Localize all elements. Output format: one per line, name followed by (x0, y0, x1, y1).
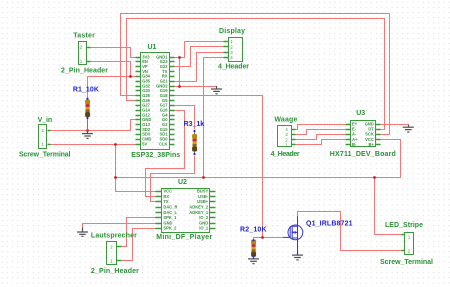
wire GND1 node down to GND2 (179, 58, 181, 87)
wire V_in pin1 to U1 5V (51, 144, 136, 146)
node GND2 (178, 85, 181, 88)
svg-text:4_Header: 4_Header (218, 64, 249, 71)
wire Waage pin2 to U3 A- (296, 135, 346, 140)
svg-text:IO_1: IO_1 (199, 226, 209, 231)
wire Q1 drain to LED pin2 (298, 212, 402, 251)
svg-text:Screw_Terminal: Screw_Terminal (19, 152, 71, 159)
header Lautsprecher 2_Pin_Header (107, 242, 122, 265)
resistor R3 1k (192, 130, 197, 155)
svg-text:USB+: USB+ (197, 199, 209, 204)
wire U1 GND1 to Display pin1 (175, 42, 224, 58)
svg-text:R1_10K: R1_10K (73, 87, 99, 94)
IC U2 Mini_DF_Player (156, 189, 216, 233)
wire U1 G21 to Display pin3 (175, 53, 224, 82)
svg-text:U2: U2 (178, 179, 187, 186)
node GND1 (178, 56, 181, 59)
wire U1 G16 to U2 RX (146, 111, 185, 197)
wire gate node left to R2 (254, 238, 263, 240)
node rail / Display pin4 (202, 176, 205, 179)
ground right of U3 (403, 125, 414, 133)
wire U1 G17 to R3 top (175, 106, 195, 130)
wire Waage pin4 to U3 E+ (296, 125, 346, 130)
svg-text:U3: U3 (356, 110, 365, 117)
header J1 Taster (79, 42, 91, 65)
wire R3 bottom to U2 TX (151, 156, 195, 202)
svg-text:ADKEY_1: ADKEY_1 (189, 210, 209, 215)
svg-text:Taster: Taster (73, 33, 95, 40)
svg-text:Screw_Terminal: Screw_Terminal (380, 259, 433, 266)
wire U2 GND to speaker pin2 (83, 224, 156, 228)
wire V+ drop to U2 VCC (116, 145, 156, 192)
ground below R1 (82, 131, 93, 139)
wire Taster pin1 down to node (91, 62, 131, 77)
wire Waage pin3 to U3 E- (296, 130, 346, 135)
svg-text:RX: RX (163, 194, 169, 199)
svg-text:Lautsprecher: Lautsprecher (91, 233, 137, 240)
wire U1 G22 to Display pin2 (175, 47, 224, 67)
svg-text:CLK: CLK (159, 141, 167, 146)
svg-text:LED_Stripe: LED_Stripe (385, 222, 423, 229)
svg-text:U1: U1 (148, 44, 157, 51)
wire U1 G18 to gate node (175, 96, 284, 238)
wire V_in pin2 to U1 GND (51, 120, 136, 131)
wire V+ rail (116, 177, 375, 179)
svg-text:5V: 5V (142, 141, 147, 146)
transistor Q1 IRLB8721 MOSFET (283, 217, 302, 254)
resistor R1 10K (85, 98, 90, 131)
svg-text:SPK_1: SPK_1 (163, 215, 177, 220)
svg-text:DAC_R: DAC_R (163, 205, 177, 210)
svg-text:B-: B- (352, 142, 357, 147)
wire U2 SPK1 to ground (122, 218, 156, 247)
wire Taster pin2 to U1 3V3 (91, 48, 136, 58)
svg-text:VCC: VCC (163, 189, 172, 194)
node gate / R2 (261, 236, 264, 239)
wire U2 SPK2 to speaker pin1 (122, 229, 156, 261)
svg-text:2_Pin_Header: 2_Pin_Header (91, 268, 139, 275)
node rail / U2 VCC drop (114, 176, 117, 179)
svg-text:HX711_DEV_Board: HX711_DEV_Board (330, 151, 396, 158)
node Taster/R1/G34 (129, 75, 132, 78)
ground below R2 (248, 257, 259, 264)
wire rail to LED pin1 (375, 178, 402, 235)
wire Waage pin1 to U3 A+ (296, 140, 346, 145)
header Display 4_Header (224, 38, 243, 62)
svg-text:Display: Display (219, 28, 245, 35)
svg-text:USB-: USB- (198, 194, 209, 199)
svg-text:V_in: V_in (38, 117, 53, 124)
node V_in+ / 5V (114, 143, 117, 146)
wire U1 G26 top run to U3 DT (127, 19, 385, 130)
header Waage 4_Header (278, 126, 296, 148)
wire GND2 to ground (175, 86, 217, 88)
svg-text:ADKEY_2: ADKEY_2 (189, 205, 209, 210)
node rail / LED branch (373, 176, 376, 179)
svg-text:2_Pin_Header: 2_Pin_Header (61, 68, 108, 75)
svg-text:DAC_L: DAC_L (163, 210, 177, 215)
header J2 V_in screw terminal (39, 125, 51, 149)
svg-text:ESP32_38Pins: ESP32_38Pins (131, 152, 180, 159)
ground below Q1 (292, 253, 303, 260)
wire node to U1 G34 and left to R1 top (88, 76, 136, 78)
svg-text:GND: GND (199, 220, 208, 225)
IC U1 ESP32_38Pins (136, 53, 175, 150)
node R1 bottom / V_in- (86, 129, 89, 132)
wire Display pin4 to rail (204, 58, 224, 178)
svg-text:BUSY: BUSY (197, 189, 209, 194)
svg-text:B+: B+ (368, 142, 374, 147)
wire R1 vertical through resistor to V_in net (87, 77, 89, 131)
resistor R2 10K (251, 239, 256, 257)
svg-text:SPK_2: SPK_2 (163, 226, 177, 231)
ground left of U2 speaker (77, 228, 88, 237)
svg-text:Waage: Waage (274, 117, 297, 124)
wire rail to U3 VCC (375, 140, 401, 178)
svg-text:TX: TX (163, 199, 169, 204)
svg-text:R2_10K: R2_10K (240, 227, 267, 234)
wire U1 G25 top run to U3 SCK (121, 14, 390, 135)
svg-text:GND: GND (163, 220, 172, 225)
svg-text:Mini_DF_Player: Mini_DF_Player (156, 234, 212, 241)
header LED_Stripe screw terminal (402, 233, 414, 255)
svg-text:4_Header: 4_Header (271, 151, 300, 158)
ground right of U1 (211, 86, 222, 94)
wire U3 GND to ground (381, 124, 409, 126)
svg-text:R3_1k: R3_1k (184, 121, 205, 128)
IC U3 HX711_DEV_Board (346, 121, 381, 148)
svg-text:Q1_IRLB8721: Q1_IRLB8721 (306, 221, 353, 228)
svg-text:IO_2: IO_2 (199, 215, 209, 220)
